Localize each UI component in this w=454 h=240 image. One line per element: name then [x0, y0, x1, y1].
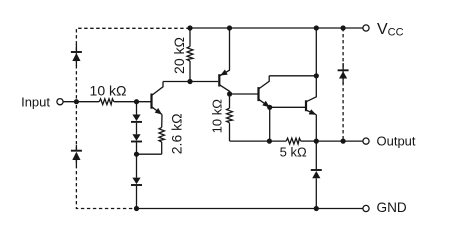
wire: GND rail	[137, 208, 364, 210]
transistor Q4 (NPN output)	[306, 28, 316, 141]
wire: Q3 collector to output transistor rail	[269, 75, 316, 77]
terminal: Input	[57, 99, 63, 105]
wire: input lead to 10k resistor	[63, 101, 99, 103]
wire: dashed bottom-left from input node down and right to chain bottom node	[76, 105, 136, 209]
svg-text:2.6 kΩ: 2.6 kΩ	[168, 113, 184, 154]
resistor R1 10k (input series)	[99, 99, 114, 105]
wire: 5k leads	[269, 140, 286, 142]
diode D3 (chain top, downward)	[131, 115, 142, 122]
resistor R5 5k (output)	[286, 138, 301, 144]
resistor R3 20k (to VCC)	[187, 28, 193, 82]
svg-text:5 kΩ: 5 kΩ	[280, 145, 307, 160]
terminal: VCC	[363, 25, 369, 31]
wire: top VCC rail	[190, 27, 363, 29]
diode D5 (chain bottom, downward)	[131, 178, 142, 185]
wire: Q3 emitter node to Q4 base	[270, 106, 305, 108]
wire: dashed vertical VCC-to-output diode branch	[342, 28, 344, 141]
diode D6 (output clamp to GND, upward)	[311, 141, 322, 208]
resistor R4 10k (vertical)	[227, 94, 233, 141]
wire: output line to terminal	[316, 140, 363, 142]
wire	[136, 142, 138, 177]
wire: dashed top-left from input node up and right to 20k top node	[76, 28, 190, 98]
svg-text:10 kΩ: 10 kΩ	[210, 99, 225, 134]
wire: diode chain verticals at x=136.5	[136, 102, 138, 115]
wire	[136, 123, 138, 135]
terminal: GND	[363, 205, 369, 211]
terminal: Output	[363, 138, 369, 144]
wire: 2.6k bottom to chain node	[137, 153, 162, 155]
wire: 10k to Q1 base	[114, 101, 151, 103]
wire: 10k bottom to 5k left node	[230, 140, 270, 142]
node: Q2 emitter on VCC rail	[227, 25, 232, 30]
node: chain mid / 2.6k bottom	[134, 152, 139, 157]
node: chain bottom on GND rail	[134, 206, 139, 211]
svg-text:Output: Output	[377, 134, 416, 149]
node: 20k top on VCC rail	[187, 25, 192, 30]
transistor Q1 (NPN)	[152, 82, 164, 128]
svg-text:10 kΩ: 10 kΩ	[90, 83, 127, 99]
node: output diode on GND rail	[314, 206, 319, 211]
node: dashed branch at output	[341, 139, 346, 144]
wire: Q3 emitter node down to 5k left node	[269, 107, 271, 141]
node: dashed diode branch on VCC rail	[341, 25, 346, 30]
wire	[136, 186, 138, 209]
node: input junction	[74, 99, 79, 104]
diode D1 (input to VCC, upward)	[71, 44, 82, 66]
wire: Q1 collector rail to Q2 base	[163, 81, 218, 83]
diode D4 (chain middle, downward)	[131, 134, 142, 141]
node: Q3 emitter / Q4 base	[267, 105, 272, 110]
svg-text:20 kΩ: 20 kΩ	[171, 37, 187, 74]
node: 10k / chain / Q1 base	[134, 99, 139, 104]
node: output stage on VCC rail	[314, 25, 319, 30]
transistor Q3 (NPN)	[259, 76, 270, 107]
node: 5k left / 10k bottom	[267, 139, 272, 144]
transistor Q2 (PNP)	[219, 28, 229, 94]
node: Q3 collector rail junction	[314, 73, 319, 78]
svg-text:Input: Input	[21, 95, 50, 110]
node: output junction	[314, 139, 319, 144]
diode D7 (output to VCC, on dashed branch, upward)	[338, 63, 349, 84]
diode D2 (GND to input, upward)	[71, 145, 82, 165]
node: Q2 collector / 10k top / Q3 base	[227, 91, 232, 96]
wire: 2.6k bottom lead	[161, 142, 163, 154]
svg-text:VCC: VCC	[377, 21, 404, 39]
resistor R2 2.6k (Q1 emitter)	[159, 127, 164, 142]
wire: Q2 collector node to Q3 base	[230, 93, 258, 95]
svg-text:GND: GND	[377, 200, 407, 215]
node: 20k bottom / Q1 collector / Q2 base	[187, 79, 192, 84]
